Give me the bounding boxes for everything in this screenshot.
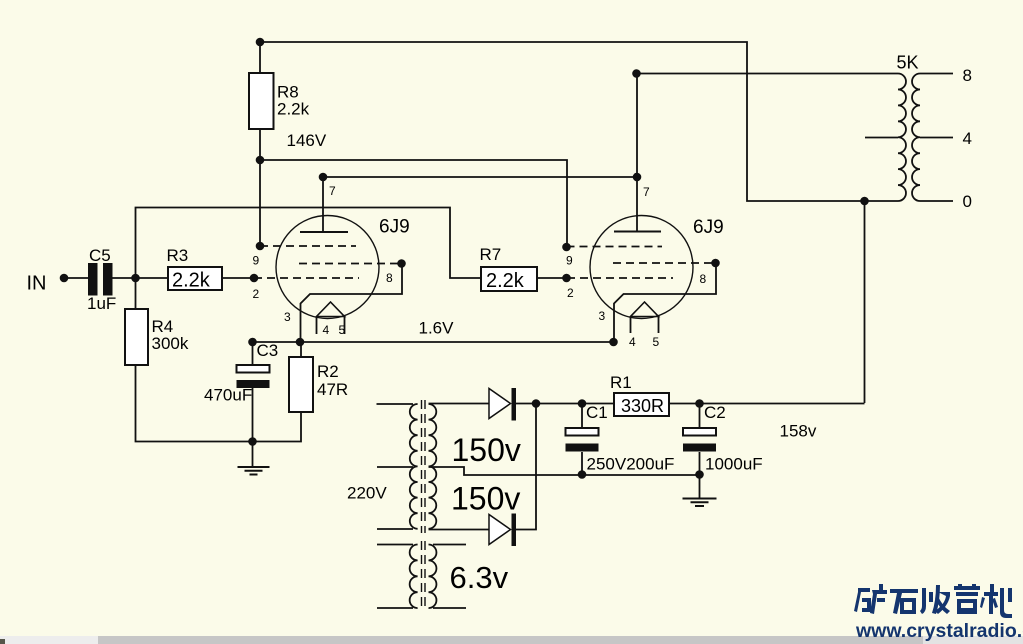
char shi xyxy=(890,589,918,614)
wire tube1 suppressor to cathode xyxy=(301,264,403,343)
char shou xyxy=(920,585,950,614)
power transformer T1 core xyxy=(422,400,426,533)
wire 146V to tube2 screen grid xyxy=(260,160,567,247)
svg-text:4: 4 xyxy=(629,335,636,349)
svg-text:2: 2 xyxy=(253,287,260,301)
wire HV winding bottom lead to diode D2 xyxy=(429,529,490,531)
wire HV center tap to filter ground rail xyxy=(429,467,700,475)
wire D2 output up to D1 output xyxy=(516,404,536,530)
svg-text:7: 7 xyxy=(643,185,650,199)
bottom bar main gray segment xyxy=(98,636,923,644)
capacitor C3 xyxy=(237,365,270,373)
output transformer T3 secondary winding xyxy=(912,74,920,202)
capacitor C5 xyxy=(88,263,98,296)
svg-text:3: 3 xyxy=(284,310,291,324)
logo 矿石收音机 (drawn strokes) xyxy=(854,584,1012,618)
resistor R2 xyxy=(289,357,313,412)
svg-text:2: 2 xyxy=(567,286,574,300)
filament transformer T2 core xyxy=(422,541,426,611)
filament transformer T2 secondary winding xyxy=(429,545,437,609)
wire top rail from R8 top to output transformer bottom xyxy=(260,42,898,201)
wire C5 to R3 junction xyxy=(113,277,169,279)
tube U1 control grid g1 xyxy=(254,277,359,279)
tube U2 6J9 envelope xyxy=(590,216,693,319)
svg-text:2.2k: 2.2k xyxy=(486,270,525,292)
svg-text:1uF: 1uF xyxy=(87,294,116,313)
tube U2 suppressor g3 xyxy=(613,262,712,264)
tube U2 heater pins xyxy=(631,317,659,334)
resistor R4 xyxy=(125,309,148,365)
svg-text:8: 8 xyxy=(700,272,707,286)
tube U2 screen grid g2 xyxy=(567,246,663,248)
capacitor C2 xyxy=(683,428,716,436)
svg-text:470uF: 470uF xyxy=(204,386,252,405)
wire C1 leads xyxy=(581,404,583,476)
wire grid junction up and across to R7 xyxy=(136,208,482,279)
wire R2 top lead xyxy=(300,342,302,357)
svg-text:R7: R7 xyxy=(480,245,502,264)
svg-text:C5: C5 xyxy=(89,246,111,265)
tube U2 control grid g1 xyxy=(567,277,673,279)
bottom bar right light segment xyxy=(923,636,1023,644)
char kuang xyxy=(854,584,887,614)
power transformer T1 primary winding xyxy=(410,404,418,529)
svg-text:9: 9 xyxy=(566,254,573,268)
wire R7 to tube2 grid xyxy=(537,277,567,279)
filament transformer T2 primary winding xyxy=(410,545,418,609)
char yin xyxy=(954,584,980,614)
svg-text:1.6V: 1.6V xyxy=(419,319,455,338)
svg-text:146V: 146V xyxy=(287,131,327,150)
svg-text:250V200uF: 250V200uF xyxy=(587,455,675,474)
wire R3 to tube1 grid xyxy=(222,277,254,279)
resistor R7 xyxy=(481,267,537,291)
svg-text:R3: R3 xyxy=(167,246,189,265)
svg-text:220V: 220V xyxy=(347,484,387,503)
svg-text:8: 8 xyxy=(386,271,393,285)
svg-text:8: 8 xyxy=(963,66,972,85)
svg-text:6.3v: 6.3v xyxy=(450,560,509,595)
svg-text:1000uF: 1000uF xyxy=(705,455,763,474)
tube U2 plate xyxy=(614,231,661,233)
wire HV winding top lead to diode D1 xyxy=(429,403,490,405)
capacitor C1 xyxy=(566,428,599,436)
output transformer T3 primary winding xyxy=(898,74,906,202)
wire tube2 suppressor to cathode xyxy=(614,263,716,342)
diode D2 xyxy=(489,515,511,545)
resistor R8 xyxy=(249,73,274,129)
svg-text:330R: 330R xyxy=(621,396,664,416)
svg-text:C1: C1 xyxy=(586,403,608,422)
svg-text:C3: C3 xyxy=(257,341,279,360)
wire cathode rail 1.6V xyxy=(250,341,614,343)
diode D1 xyxy=(489,389,511,419)
wire plate rail tube1 to tube2 xyxy=(323,176,637,178)
tube U1 suppressor g3 xyxy=(299,263,398,265)
svg-text:6J9: 6J9 xyxy=(379,217,410,238)
ground under C2 xyxy=(683,499,717,507)
svg-text:150v: 150v xyxy=(452,432,521,468)
wire ground stem under C3 xyxy=(252,442,254,467)
svg-text:3: 3 xyxy=(599,309,606,323)
svg-text:6J9: 6J9 xyxy=(693,217,724,238)
svg-text:150v: 150v xyxy=(451,481,520,517)
svg-text:47R: 47R xyxy=(317,380,348,399)
wire C3 leads xyxy=(252,342,254,442)
resistor R3 xyxy=(168,267,222,290)
wire ground stem under C2 xyxy=(699,475,701,498)
wire R8 top lead xyxy=(259,42,261,73)
power transformer T1 primary leads xyxy=(377,404,414,529)
wire B+ horizontal filter rail xyxy=(516,403,865,405)
svg-text:0: 0 xyxy=(963,192,972,211)
wire C2 leads xyxy=(699,404,701,476)
wire B+ vertical to OPT xyxy=(864,201,866,403)
wire IN to C5 xyxy=(64,277,88,279)
tube U2 heater triangle cathode xyxy=(631,302,659,317)
svg-text:www.crystalradio.cn: www.crystalradio.cn xyxy=(855,620,1023,642)
ground under C3 xyxy=(238,467,270,475)
svg-text:5: 5 xyxy=(653,335,660,349)
resistor R1 xyxy=(614,393,669,416)
tube U1 heater triangle cathode xyxy=(317,302,345,317)
svg-text:300k: 300k xyxy=(152,334,189,353)
svg-text:IN: IN xyxy=(27,273,47,295)
tube U1 plate xyxy=(300,231,348,233)
filament transformer T2 leads xyxy=(377,545,466,609)
svg-text:5K: 5K xyxy=(897,53,919,73)
power transformer T1 secondary winding xyxy=(429,404,437,529)
svg-text:2.2k: 2.2k xyxy=(277,100,310,119)
wire R4 top lead xyxy=(135,278,137,309)
svg-text:R2: R2 xyxy=(317,362,339,381)
svg-text:7: 7 xyxy=(329,184,336,198)
svg-text:2.2k: 2.2k xyxy=(172,270,211,292)
output transformer T3 secondary leads xyxy=(920,74,953,202)
wire tube2 plate to OPT top xyxy=(637,74,898,232)
svg-text:4: 4 xyxy=(323,323,330,337)
tube U1 6J9 envelope xyxy=(276,216,379,319)
output transformer T3 primary tap stub xyxy=(865,137,898,139)
svg-text:R1: R1 xyxy=(610,373,632,392)
tube U1 screen grid g2 xyxy=(260,245,356,247)
svg-text:C2: C2 xyxy=(704,403,726,422)
bottom bar left light segment xyxy=(0,636,98,644)
wire tube1 plate lead xyxy=(322,177,324,232)
svg-text:5: 5 xyxy=(339,323,346,337)
tube U1 heater pins xyxy=(317,317,345,335)
svg-text:4: 4 xyxy=(963,129,972,148)
bottom left corner mark xyxy=(0,639,5,644)
svg-text:9: 9 xyxy=(253,254,260,268)
char ji xyxy=(980,584,1012,618)
wire R8 bottom lead 146V node xyxy=(259,129,261,246)
svg-text:158v: 158v xyxy=(780,422,817,441)
wire R4 bottom to R2 bottom rail xyxy=(136,365,302,442)
